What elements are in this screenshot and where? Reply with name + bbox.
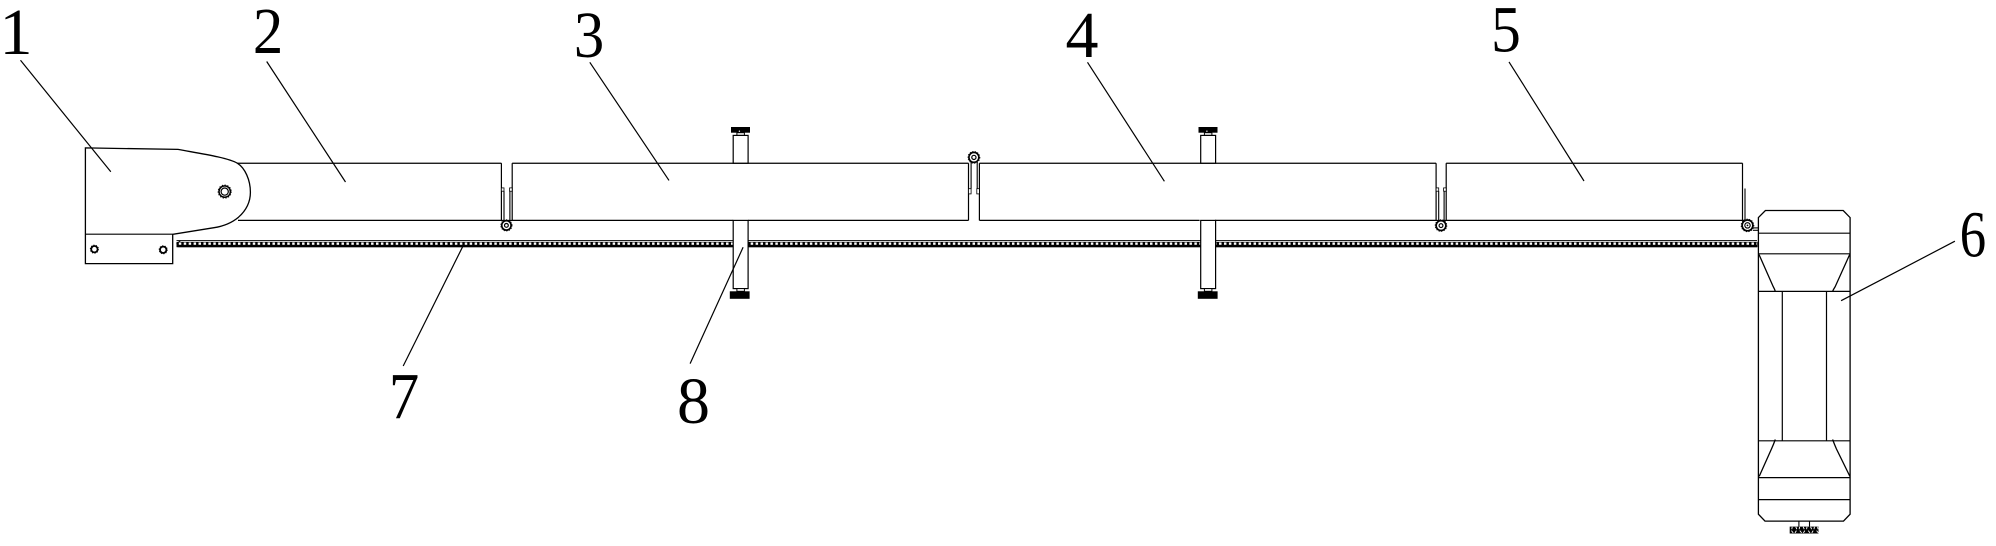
mounting bracket 1 <box>85 148 250 264</box>
boom section 3 top edge <box>512 162 968 164</box>
label 7 <box>389 245 464 433</box>
svg-text:2: 2 <box>253 0 283 68</box>
svg-text:4: 4 <box>1066 0 1099 72</box>
label 6 <box>1841 198 1986 301</box>
bracket foot bolt left <box>90 245 98 253</box>
hinge joint section2-3 <box>501 163 512 231</box>
hinge joint section4-5 <box>1435 163 1447 231</box>
bracket foot bolt right <box>159 246 167 254</box>
brush foot <box>1790 521 1819 533</box>
label 4 <box>1066 0 1165 181</box>
clevis-wheel link <box>1753 228 1759 230</box>
svg-text:1: 1 <box>0 0 33 69</box>
label 3 <box>574 0 669 180</box>
svg-text:5: 5 <box>1491 0 1521 66</box>
clamp screw 8 (left) <box>730 127 750 299</box>
boom section 4 top edge <box>979 162 1436 164</box>
boom section 2 top edge <box>237 162 501 164</box>
label 8 <box>677 247 743 438</box>
roller wheel 6 <box>1758 211 1850 522</box>
svg-text:3: 3 <box>574 0 604 72</box>
svg-text:8: 8 <box>677 365 710 438</box>
boom bottom edge <box>238 219 1744 221</box>
boom section 5 top edge <box>1446 162 1742 164</box>
clamp screw (right) <box>1198 127 1218 299</box>
end clevis <box>1741 163 1754 232</box>
hinge joint section3-4 <box>968 152 980 221</box>
label 5 <box>1491 0 1584 181</box>
svg-text:6: 6 <box>1960 198 1986 271</box>
bracket pivot bolt <box>218 185 231 198</box>
svg-text:7: 7 <box>389 359 419 433</box>
label 2 <box>253 0 346 182</box>
label 1 <box>0 0 111 172</box>
